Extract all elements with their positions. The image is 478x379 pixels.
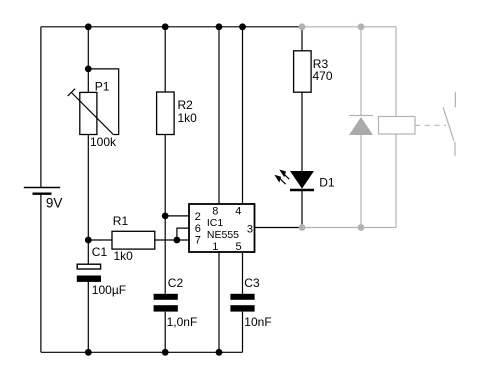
node dot ground / C2	[162, 349, 169, 356]
wire top V+ rail	[41, 26, 302, 28]
wire left rail (battery branch)	[40, 27, 42, 188]
wire P1 top drop	[87, 27, 89, 93]
LED D1 cathode bar	[290, 189, 314, 192]
node dot OUT gray	[299, 224, 306, 231]
wire battery minus to ground rail	[40, 194, 42, 353]
svg-text:C2: C2	[168, 276, 184, 290]
wire IC1 pin1 to ground	[218, 252, 220, 352]
LED D1 triangle	[290, 171, 314, 189]
svg-text:100µF: 100µF	[92, 283, 126, 297]
resistor R3 body	[294, 51, 312, 92]
LED D1 light arrow 1	[279, 170, 289, 180]
wire R3 bottom to D1	[301, 92, 303, 171]
wire V+ rail gray extension	[302, 26, 396, 28]
svg-text:4: 4	[235, 205, 241, 217]
wire R3 top	[301, 27, 303, 51]
node dot V+ / pin4	[239, 23, 246, 30]
svg-text:C3: C3	[244, 276, 260, 290]
wire IC1 pin3 output	[255, 227, 303, 229]
svg-text:NE555: NE555	[207, 229, 239, 241]
flyback diode cathode bar	[349, 115, 373, 117]
wire relay coil top	[395, 27, 397, 117]
wire R1 right to IC1 pin7	[155, 239, 189, 241]
svg-text:R1: R1	[113, 214, 129, 228]
svg-text:1k0: 1k0	[114, 249, 134, 263]
flyback diode triangle (gray)	[349, 117, 373, 135]
junction dots gray	[299, 23, 365, 231]
svg-text:1,0nF: 1,0nF	[167, 315, 198, 329]
node dot P1 wiper tie	[85, 66, 92, 73]
svg-text:7: 7	[195, 234, 201, 246]
svg-text:470: 470	[313, 69, 333, 83]
node dot V+ / R2	[162, 23, 169, 30]
wire node B to IC1 pin2	[165, 215, 189, 217]
wire D1 cathode to node OUT	[301, 190, 303, 228]
wire OUT node to relay	[302, 227, 396, 229]
wire flyback diode top	[360, 27, 362, 116]
potentiometer P1 wiper arrow	[68, 89, 114, 135]
LED D1 light arrow 2	[274, 175, 285, 184]
node dot B (R2/pin2)	[162, 213, 169, 220]
wire P1 wiper link	[88, 69, 118, 135]
relay contact dashed actuator	[415, 124, 446, 126]
svg-text:6: 6	[195, 223, 201, 235]
wire C1 bottom to ground	[87, 282, 89, 352]
node dot V+ gray / R3	[299, 23, 306, 30]
wire C1 top	[87, 240, 89, 264]
wire C3 bottom to ground corner	[242, 312, 244, 353]
junction dots black	[85, 23, 246, 355]
wire IC1 pin5 to C3	[242, 252, 244, 294]
relay contact fixed terminal top	[454, 92, 456, 107]
svg-text:10nF: 10nF	[244, 315, 271, 329]
relay coil box (gray)	[379, 117, 416, 135]
battery 9V	[24, 188, 60, 194]
node dot OUT gray / diode	[358, 224, 365, 231]
node dot A (P1/R1/C1)	[85, 237, 92, 244]
svg-text:8: 8	[212, 205, 218, 217]
wire P1 bottom to node A	[87, 135, 89, 241]
capacitor C3 plate top	[230, 294, 254, 300]
wire flyback diode bottom	[360, 135, 362, 228]
svg-text:1k0: 1k0	[178, 111, 198, 125]
relay contact terminal bottom	[454, 142, 456, 156]
resistor R1 body	[112, 231, 155, 249]
wire IC1 pin4 drop	[242, 27, 244, 204]
capacitor C1 plate plus (hollow)	[77, 264, 100, 269]
wire IC1 pin8 drop	[218, 27, 220, 204]
wire R2 bottom to C2	[164, 135, 166, 294]
node dot ground / C1	[85, 349, 92, 356]
svg-text:1: 1	[212, 241, 218, 253]
wire R2 top drop	[164, 27, 166, 92]
svg-text:P1: P1	[95, 80, 110, 94]
node dot V+ gray / diode	[358, 23, 365, 30]
wire node A to R1 left	[88, 239, 112, 241]
potentiometer P1 body	[80, 92, 97, 134]
capacitor C3 plate bottom	[230, 305, 254, 311]
ghosted relay network (gray)	[302, 27, 455, 228]
svg-text:R2: R2	[178, 98, 194, 112]
wire bottom ground rail	[41, 351, 243, 353]
node dot V+ / P1	[85, 23, 92, 30]
node dot V+ / pin8	[216, 23, 223, 30]
relay contact movable arm	[443, 107, 454, 141]
svg-text:5: 5	[236, 241, 242, 253]
node dot ground / pin1	[216, 349, 223, 356]
node dot pin6/pin7 tie	[174, 237, 181, 244]
resistor R2 body	[157, 92, 175, 135]
svg-text:9V: 9V	[46, 196, 63, 211]
svg-text:IC1: IC1	[207, 217, 224, 229]
svg-text:D1: D1	[319, 175, 335, 189]
op-amp timer IC1 NE555 body	[189, 204, 255, 252]
capacitor C2 plate top	[154, 294, 178, 300]
capacitor C2 plate bottom	[154, 305, 178, 311]
svg-text:C1: C1	[92, 245, 108, 259]
svg-text:100k: 100k	[90, 135, 117, 149]
svg-text:2: 2	[195, 211, 201, 223]
wire relay coil bottom	[395, 134, 397, 228]
wire pin6 jog	[177, 228, 189, 240]
capacitor C1 plate minus (solid)	[77, 276, 101, 282]
wire C2 bottom to ground	[164, 312, 166, 353]
svg-text:3: 3	[247, 223, 253, 235]
